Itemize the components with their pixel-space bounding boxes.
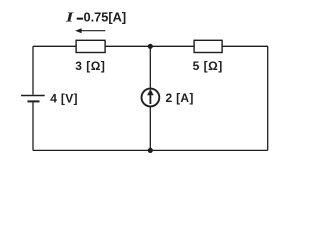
svg-text:0.75[A]: 0.75[A] xyxy=(84,10,127,25)
svg-text:3 [Ω]: 3 [Ω] xyxy=(75,59,105,73)
svg-text:5 [Ω]: 5 [Ω] xyxy=(193,59,223,73)
svg-text:I: I xyxy=(65,9,74,25)
svg-text:2 [A]: 2 [A] xyxy=(166,91,194,105)
svg-text:4 [V]: 4 [V] xyxy=(50,91,78,105)
